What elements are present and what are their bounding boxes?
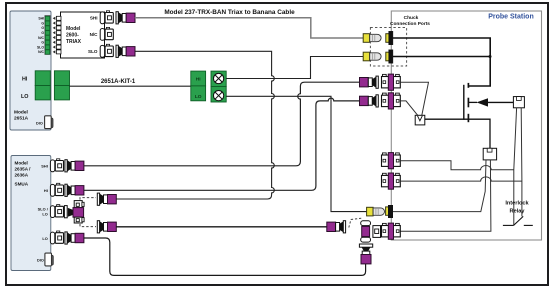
wire: 2600-TRIAX SHI to banana plug 1 <box>135 18 363 38</box>
wire: jack B to sense combiner box <box>400 101 418 116</box>
svg-text:2600-: 2600- <box>66 33 79 39</box>
wire: jack C to relay contact <box>400 161 514 170</box>
2600-TRIAX N/C jack <box>90 27 114 40</box>
wire: chuck port 2 to drain node <box>393 56 490 58</box>
svg-text:N/C: N/C <box>38 36 44 40</box>
MOSFET gate line <box>463 85 465 120</box>
interlock feedthrough jack C on wall <box>382 153 401 169</box>
chuck connection dashed box <box>370 28 406 67</box>
junction chuck node <box>489 55 492 58</box>
wire: gate probe box right lead down to relay blade <box>520 108 523 217</box>
interlock relay switch symbol <box>503 216 533 225</box>
wire: SMU HI to feedthrough plug B <box>84 98 360 190</box>
svg-text:Relay: Relay <box>510 209 526 215</box>
wire: gate probe box left lead down to relay <box>514 108 517 226</box>
dashed link tee-top to upper branch plug <box>80 198 96 200</box>
svg-text:DIO: DIO <box>36 121 43 125</box>
dashed link plug to tee-2 <box>349 218 362 227</box>
feedthrough jack A on wall <box>382 74 401 90</box>
svg-text:LO: LO <box>195 94 202 100</box>
SMU HI jack <box>44 183 64 196</box>
chuck port 2 <box>386 50 393 63</box>
svg-text:Connection Ports: Connection Ports <box>390 21 430 27</box>
gate probe connector box <box>513 97 524 108</box>
svg-text:SMUA: SMUA <box>15 182 29 187</box>
svg-text:HI: HI <box>22 77 28 83</box>
svg-text:N/C: N/C <box>38 50 44 54</box>
MOSFET body lead <box>468 101 477 103</box>
banana plug 1 <box>363 34 381 43</box>
svg-text:TRIAX: TRIAX <box>66 39 82 45</box>
SMU SHI cable plug <box>65 160 84 172</box>
2651A output terminal strip (8 green cells) <box>45 16 50 55</box>
svg-text:2651A: 2651A <box>14 116 29 122</box>
banana plug 2 <box>363 52 381 61</box>
wire: jack D to relay blade <box>400 177 522 181</box>
2651A terminal labels <box>37 17 45 55</box>
svg-text:Model: Model <box>15 161 28 166</box>
Model 2651A rear panel <box>10 11 51 130</box>
svg-text:LO: LO <box>42 236 47 241</box>
svg-text:G: G <box>41 41 44 45</box>
svg-text:G: G <box>41 21 44 25</box>
svg-text:SHI: SHI <box>90 16 98 21</box>
SLO/LO upper branch cable plug <box>97 193 116 205</box>
2600-TRIAX input pins <box>56 16 61 54</box>
wire: SLO/LO lower branch to tee-2 plug <box>116 226 327 228</box>
svg-text:LO: LO <box>21 94 29 100</box>
svg-text:SHI: SHI <box>38 17 44 21</box>
dashed link tee-bottom to lower branch plug <box>80 224 96 227</box>
chuck port 1 <box>386 31 393 44</box>
MOSFET channel body segment <box>467 98 469 108</box>
wire: SMU LO to probe-station tee bottom <box>84 238 366 275</box>
feedthrough jack B on wall <box>382 93 401 109</box>
svg-text:SLO: SLO <box>88 49 98 54</box>
svg-text:DIO: DIO <box>37 259 44 263</box>
wire: SMU SHI to feedthrough plug A <box>84 82 360 166</box>
MOSFET channel drain segment <box>467 83 469 88</box>
banana receptacle on wall <box>386 205 393 218</box>
svg-text:Model: Model <box>66 26 81 32</box>
Probe Station enclosure <box>391 11 541 240</box>
svg-text:2651A-KIT-1: 2651A-KIT-1 <box>101 79 136 85</box>
SMU HI cable plug <box>65 184 84 196</box>
KIT screw terminal block <box>211 71 226 102</box>
tee-2 wall feedthrough <box>382 223 401 239</box>
2600-TRIAX SLO jack <box>88 44 113 57</box>
wire: source probe box right lead to tee feedthrough <box>400 160 491 231</box>
SLO/LO lower branch cable plug <box>97 221 116 233</box>
wire: source probe box left lead to banana receptacle <box>393 160 486 212</box>
svg-text:G: G <box>41 26 44 30</box>
wire: jack A to sense combiner box <box>400 82 428 115</box>
SMU LO cable plug <box>65 232 84 244</box>
SMU SHI jack <box>41 159 63 172</box>
vertical plug into tee-2 bottom (from SMU LO) <box>359 244 372 264</box>
feedthrough plug B (from SMU HI) <box>360 95 379 107</box>
source probe connector box <box>483 148 496 160</box>
SHI cable plug on 2600-TRIAX <box>116 12 135 24</box>
Model 2635A/2636A SMUA rear panel <box>11 156 51 271</box>
svg-text:N/C: N/C <box>90 32 99 37</box>
2600-TRIAX SHI jack <box>90 11 113 24</box>
wire: needle arrow to gate probe box <box>488 101 514 103</box>
svg-text:SLO: SLO <box>37 45 44 49</box>
wire: chuck port 1 to MOSFET drain <box>393 38 490 86</box>
wire: 2600-TRIAX SLO down to SMU SLO/LO upper branch <box>116 51 275 199</box>
SMU LO jack <box>42 231 63 244</box>
Model 2600-TRIAX adapter box <box>61 12 105 58</box>
svg-text:Interlock: Interlock <box>505 201 529 207</box>
svg-text:SHI: SHI <box>41 164 48 169</box>
svg-text:Model: Model <box>14 110 28 116</box>
banana plug into receptacle (from KIT LO) <box>367 207 385 216</box>
triax tee adapter on SMU SLO/LO <box>64 201 84 223</box>
wire: KIT HI terminal to chuck banana 2 <box>226 57 363 79</box>
tee-2 side jack into wall <box>373 226 381 238</box>
svg-text:G: G <box>41 31 44 35</box>
triax tee-2 assembly <box>361 221 371 242</box>
tee-2 cable plug (from SMU SLO/LO lower branch) <box>327 221 346 233</box>
2651A-KIT cable end block (green pair) <box>54 71 69 100</box>
interlock feedthrough jack D on wall <box>382 173 401 189</box>
svg-text:HI: HI <box>196 77 201 83</box>
svg-text:2635A /: 2635A / <box>15 167 32 172</box>
svg-text:2636A: 2636A <box>15 173 29 178</box>
connection arrows between 2651A strip and 2600-TRIAX pins <box>53 17 56 54</box>
svg-text:Chuck: Chuck <box>404 15 419 21</box>
2651A DIO port <box>36 116 53 129</box>
KIT terminal block HI/LO (green labels) <box>191 71 206 101</box>
SLO cable plug on 2600-TRIAX <box>116 45 135 57</box>
wire: KIT LO terminal to probe-station banana receptacle <box>226 96 366 211</box>
MOSFET channel source segment <box>467 114 469 122</box>
svg-text:LO: LO <box>42 212 47 217</box>
2651A output block (green pair on panel) <box>35 71 50 100</box>
wire: combiner box to MOSFET source rail <box>425 119 490 148</box>
SMU SLO/LO jack <box>38 205 64 218</box>
probe needle arrow into MOSFET body <box>477 98 489 106</box>
svg-text:Probe Station: Probe Station <box>488 14 534 21</box>
svg-text:Model 237-TRX-BAN Triax to Ban: Model 237-TRX-BAN Triax to Banana Cable <box>164 9 295 16</box>
svg-text:HI: HI <box>44 188 48 193</box>
SMU DIO port <box>37 253 53 266</box>
wire: 2651A-KIT-1 cable <box>70 85 191 87</box>
feedthrough plug A (from SMU SHI) <box>360 76 379 88</box>
sense combiner box <box>415 115 425 125</box>
